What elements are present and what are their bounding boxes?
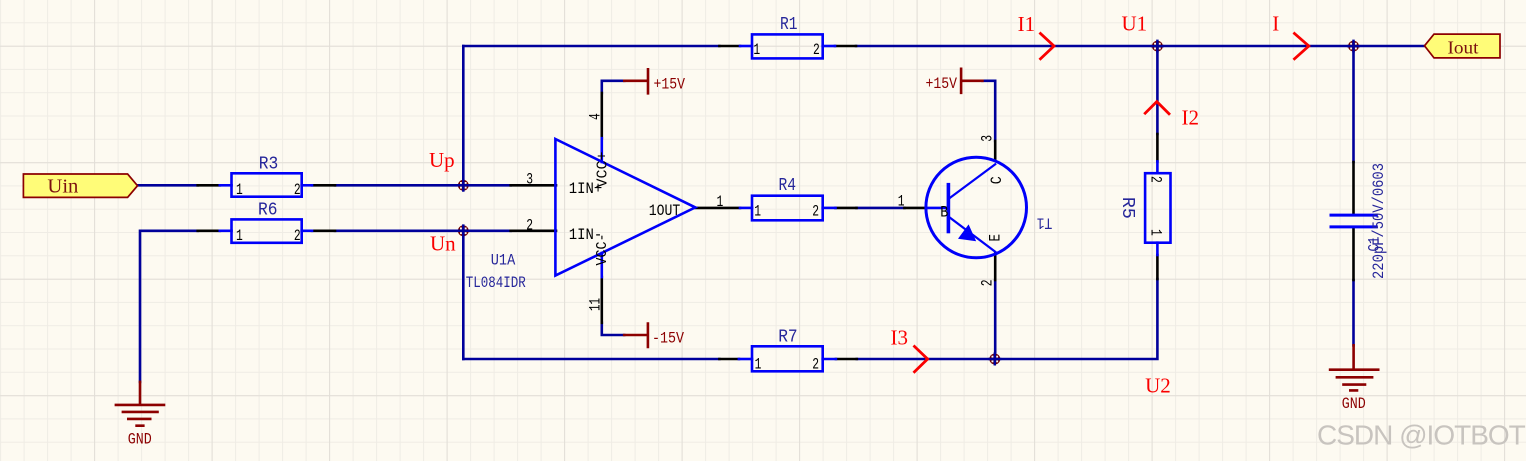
pin lead transistor base pin1 <box>904 207 926 210</box>
power +15V op-amp <box>624 69 648 93</box>
svg-text:I1: I1 <box>1018 12 1036 36</box>
pin stub R7 pin2 <box>823 358 836 361</box>
pin lead R4 pin2 <box>836 207 857 210</box>
transistor T1 emitter arrow <box>960 226 975 240</box>
svg-text:T1: T1 <box>1037 214 1053 232</box>
resistor R4 body <box>752 196 823 221</box>
wire C1 bottom to GND <box>1352 280 1355 345</box>
wire R5 top to U1 node <box>1156 46 1159 134</box>
pin stub R5 pin1 <box>1156 243 1159 255</box>
pin lead R6 pin2 <box>312 230 335 233</box>
pin lead R7 pin1 <box>719 358 739 361</box>
svg-text:1: 1 <box>753 41 760 59</box>
svg-text:Uin: Uin <box>47 176 78 198</box>
wire R6 left to GND corner <box>140 231 198 382</box>
svg-text:E: E <box>987 234 1005 242</box>
resistor R3 body <box>232 173 302 196</box>
pin stub op-amp pin4 <box>600 138 603 162</box>
wire left feedback vertical lower (Un to bottom) <box>462 231 465 359</box>
svg-text:R6: R6 <box>258 200 278 221</box>
svg-text:R4: R4 <box>779 175 797 196</box>
capacitor C1 plates <box>1331 215 1376 227</box>
pin stub R3 pin1 <box>220 184 232 187</box>
pin lead op-amp pin3 <box>511 184 556 187</box>
pin lead R1 pin2 <box>835 45 856 48</box>
pin stub R5 pin2 <box>1156 161 1159 173</box>
svg-text:VCC+: VCC+ <box>594 152 611 188</box>
svg-text:R7: R7 <box>778 327 798 348</box>
pin stub R4 pin1 <box>740 207 752 210</box>
wire emitter to bottom junction <box>994 280 997 359</box>
pin stub R1 pin2 <box>823 45 835 48</box>
svg-text:GND: GND <box>1342 395 1366 413</box>
power +15V transistor <box>961 69 982 93</box>
pin lead op-amp pin1 output <box>696 207 740 210</box>
transistor T1 circle <box>926 157 1027 258</box>
svg-text:2: 2 <box>294 227 301 245</box>
junction node Un <box>458 225 469 236</box>
svg-text:2: 2 <box>812 356 819 374</box>
svg-text:2: 2 <box>812 203 819 221</box>
pin lead op-amp pin11 <box>600 277 603 323</box>
svg-text:CSDN @IOTBOT: CSDN @IOTBOT <box>1317 420 1526 451</box>
ground GND right <box>1330 345 1378 390</box>
pin lead R3 pin2 <box>312 184 335 187</box>
svg-text:3: 3 <box>526 171 533 189</box>
junction node Up <box>458 180 469 191</box>
pin lead R5 pin2 top <box>1156 134 1159 161</box>
svg-text:Up: Up <box>429 148 455 172</box>
pin stub op-amp pin11 <box>600 253 603 277</box>
power -15V op-amp <box>624 324 648 348</box>
wire op-amp pin11 to -15V <box>602 323 624 335</box>
svg-text:GND: GND <box>128 430 152 448</box>
svg-text:1: 1 <box>898 192 905 210</box>
pin stub R6 pin2 <box>302 230 312 233</box>
svg-text:1OUT: 1OUT <box>649 202 681 220</box>
pin lead R6 pin1 <box>198 230 220 233</box>
svg-text:B: B <box>940 204 948 222</box>
svg-text:+15V: +15V <box>654 76 686 94</box>
svg-text:3: 3 <box>979 135 997 142</box>
svg-text:1: 1 <box>1147 229 1165 236</box>
pin lead op-amp pin4 <box>600 93 603 138</box>
svg-text:R1: R1 <box>780 14 798 35</box>
pin lead R3 pin1 <box>198 184 220 187</box>
wire R4 to transistor base <box>857 207 905 210</box>
pin stub R7 pin1 <box>739 358 752 361</box>
svg-text:U1: U1 <box>1122 12 1148 36</box>
svg-text:+15V: +15V <box>926 75 958 93</box>
svg-text:2: 2 <box>294 181 301 199</box>
port flag Iout <box>1425 34 1501 58</box>
pin stub R6 pin1 <box>220 230 232 233</box>
pin lead R5 pin1 bottom <box>1156 255 1159 279</box>
svg-text:1: 1 <box>717 193 724 211</box>
current arrow I3 <box>915 347 928 372</box>
pin lead R7 pin2 <box>836 358 857 361</box>
svg-text:2: 2 <box>813 41 820 59</box>
resistor R5 body vertical <box>1145 173 1170 243</box>
wire R6 to op-amp pin2 through Un <box>335 230 511 233</box>
svg-text:R3: R3 <box>259 154 279 175</box>
transistor T1 base bar <box>947 185 951 232</box>
resistor R7 body <box>752 346 823 371</box>
svg-text:4: 4 <box>587 113 605 120</box>
svg-text:11: 11 <box>587 298 605 311</box>
current arrow I2 upward <box>1145 102 1169 114</box>
pin lead C1 top <box>1352 162 1355 214</box>
junction node U2 emitter <box>989 354 1000 365</box>
svg-text:U2: U2 <box>1145 374 1171 398</box>
resistor R1 body <box>752 34 823 58</box>
current arrow I <box>1295 34 1309 59</box>
wire R7 to U2 corner and up to R5 <box>857 279 1158 359</box>
pin stub R1 pin1 <box>740 45 752 48</box>
svg-text:U1A: U1A <box>491 251 516 269</box>
pin stub R4 pin2 <box>823 207 836 210</box>
resistor R6 body <box>232 219 302 242</box>
svg-text:I3: I3 <box>891 326 909 350</box>
junction node at C1 top <box>1348 41 1359 52</box>
svg-text:2: 2 <box>526 217 533 235</box>
svg-text:I2: I2 <box>1182 106 1200 130</box>
current arrow I1 <box>1041 34 1055 59</box>
op-amp U1A triangle <box>555 139 695 276</box>
svg-text:R5: R5 <box>1117 197 1138 219</box>
transistor T1 collector line <box>948 164 995 199</box>
wire op-amp pin4 to +15V <box>602 81 625 93</box>
wire left feedback vertical upper (Up node to top) <box>462 46 465 185</box>
svg-text:2: 2 <box>1147 176 1165 183</box>
svg-text:Un: Un <box>430 232 456 256</box>
junction node U1 <box>1152 41 1163 52</box>
transistor T1 emitter line <box>948 217 995 252</box>
svg-text:1: 1 <box>754 203 761 221</box>
pin lead transistor collector pin3 <box>994 141 997 160</box>
pin lead C1 bottom <box>1352 228 1355 280</box>
svg-text:1: 1 <box>755 356 762 374</box>
pin lead op-amp pin2 <box>511 230 556 233</box>
svg-text:220pF/50V/0603: 220pF/50V/0603 <box>1370 163 1388 279</box>
wire C1 top to node <box>1352 46 1355 162</box>
ground GND left <box>116 382 164 426</box>
svg-text:-15V: -15V <box>652 330 684 348</box>
wire Uin to R3 <box>138 184 198 187</box>
wire +15V to collector <box>982 81 995 141</box>
svg-text:VCC-: VCC- <box>594 234 611 266</box>
pin lead transistor emitter pin2 <box>994 254 997 281</box>
wire top horizontal from feedback corner to R1 and on to Iout <box>463 45 1424 48</box>
svg-text:Iout: Iout <box>1448 38 1479 58</box>
svg-text:C: C <box>988 176 1006 184</box>
pin stub R3 pin2 <box>302 184 312 187</box>
port flag Uin <box>23 174 137 197</box>
transistor T1 base stub inside <box>926 207 948 210</box>
wire bottom from feedback to R7 <box>463 358 719 361</box>
pin lead R1 pin1 <box>719 45 740 48</box>
svg-text:2: 2 <box>979 280 997 287</box>
wire R3 to op-amp pin3 through Up <box>335 184 511 187</box>
svg-text:1: 1 <box>236 181 243 199</box>
svg-text:TL084IDR: TL084IDR <box>466 274 526 292</box>
svg-text:I: I <box>1272 12 1279 36</box>
svg-text:1: 1 <box>236 227 243 245</box>
